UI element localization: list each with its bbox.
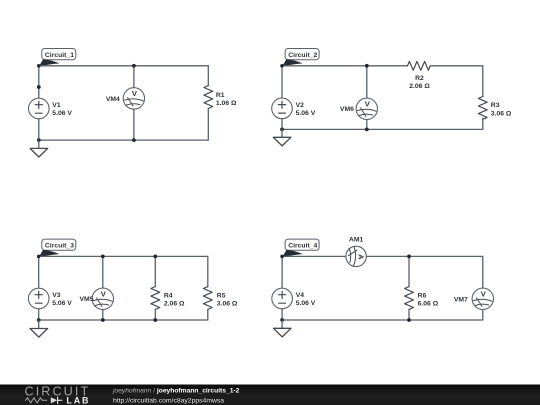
svg-text:R1: R1 [216, 92, 225, 99]
resistor R4 [151, 287, 160, 310]
node flag for Circuit_3 [39, 250, 60, 257]
wire bottom rail C3 [39, 319, 208, 321]
junction dot bottom-left C3 [37, 318, 41, 322]
node label Circuit_1 [42, 49, 76, 60]
svg-text:Circuit_1: Circuit_1 [45, 52, 74, 59]
svg-text:6.06 Ω: 6.06 Ω [418, 301, 439, 308]
svg-text:joeyhofmann / joeyhofmann_circ: joeyhofmann / joeyhofmann_circuits_1-2 [112, 387, 240, 394]
ground C4 [273, 320, 291, 337]
node label Circuit_2 [285, 49, 319, 60]
svg-text:2.06 Ω: 2.06 Ω [164, 301, 185, 308]
svg-text:R2: R2 [415, 75, 424, 82]
ammeter AM1 [346, 246, 366, 266]
junction dot VM5 top [101, 255, 105, 259]
wire bottom rail C4 [282, 319, 483, 321]
svg-text:V4: V4 [296, 292, 305, 299]
junction dot VM5 bottom [101, 318, 105, 322]
svg-text:5.06 V: 5.06 V [52, 110, 72, 117]
wire VM7 branch lower [482, 310, 484, 321]
voltmeter VM6 [356, 98, 377, 119]
svg-text:R4: R4 [164, 292, 173, 299]
voltmeter VM5 [92, 288, 113, 309]
node flag for Circuit_4 [282, 250, 303, 257]
ground C3 [30, 320, 48, 337]
svg-text:3.06 Ω: 3.06 Ω [491, 110, 512, 117]
svg-text:R6: R6 [418, 292, 427, 299]
wire top rail C1 [39, 65, 209, 67]
junction dot VM4 bottom [132, 138, 136, 142]
node flag for Circuit_1 [39, 59, 60, 67]
junction dot R6 bottom [407, 318, 411, 322]
junction dot VM6 bottom [365, 127, 369, 131]
svg-text:A: A [357, 254, 366, 260]
wire left branch upper (node to V1) [38, 66, 40, 98]
wire R3 branch upper [482, 66, 484, 97]
ground C2 [273, 129, 291, 146]
voltmeter VM4 [123, 88, 144, 109]
ground C1 [30, 140, 48, 157]
wire top rail C4 right of AM1 [366, 255, 483, 257]
wire VM6 branch lower [366, 120, 368, 130]
junction dot bottom-left C1 [37, 138, 41, 142]
wire left branch lower (V1 to bottom rail) [38, 119, 40, 140]
wire VM7 branch upper [482, 256, 484, 288]
node label Circuit_3 [42, 239, 76, 250]
svg-text:5.06 V: 5.06 V [296, 110, 316, 117]
svg-text:Circuit_3: Circuit_3 [45, 243, 74, 250]
svg-text:V3: V3 [52, 292, 61, 299]
wire top rail C3 [39, 255, 208, 257]
node dot C1 [37, 64, 41, 68]
svg-text:1.06 Ω: 1.06 Ω [216, 100, 237, 107]
svg-text:5.06 V: 5.06 V [296, 300, 316, 307]
svg-text:Circuit_4: Circuit_4 [288, 243, 317, 250]
junction dot on V1 wire [37, 85, 41, 89]
junction dot R4 top [153, 255, 157, 259]
svg-text:V2: V2 [296, 102, 305, 109]
node dot C3 [37, 255, 41, 259]
wire R6 branch lower [408, 309, 410, 320]
wire R4 branch lower [154, 309, 156, 320]
CircuitLab logo diode symbol [51, 397, 57, 403]
junction dot bottom-left C4 [280, 318, 284, 322]
wire top rail C2 right of R2 [431, 65, 483, 67]
svg-text:VM7: VM7 [454, 296, 468, 303]
svg-text:VM4: VM4 [106, 96, 120, 103]
resistor R5 [203, 287, 212, 310]
node label Circuit_4 [285, 239, 319, 250]
wire R1 branch upper [207, 66, 209, 86]
wire R5 branch upper [207, 256, 209, 286]
voltmeter VM7 [472, 288, 493, 309]
wire R6 branch upper [408, 256, 410, 286]
voltage source V2 [272, 98, 293, 119]
wire R1 branch lower [207, 108, 209, 140]
voltage source V3 [28, 288, 49, 309]
wire left branch upper (node to V2) [281, 66, 283, 98]
junction dot R6 top [407, 255, 411, 259]
node dot C2 [280, 64, 284, 68]
resistor R2 [408, 61, 431, 70]
svg-text:3.06 Ω: 3.06 Ω [217, 301, 238, 308]
wire left branch upper (node to V4) [281, 256, 283, 288]
junction dot VM4 top [132, 64, 136, 68]
wire VM5 branch upper [102, 256, 104, 288]
resistor R3 [478, 97, 487, 120]
wire R3 branch lower [482, 118, 484, 129]
svg-text:R3: R3 [491, 102, 500, 109]
junction dot bottom-left C2 [280, 127, 284, 131]
svg-text:2.06 Ω: 2.06 Ω [409, 83, 430, 90]
svg-text:VM6: VM6 [340, 106, 354, 113]
voltage source V4 [272, 288, 293, 309]
wire left branch lower (V4 to bottom rail) [281, 309, 283, 320]
svg-text:5.06 V: 5.06 V [52, 300, 72, 307]
junction dot R4 bottom [153, 318, 157, 322]
svg-text:Circuit_2: Circuit_2 [288, 52, 317, 59]
wire VM4 branch upper [133, 66, 135, 88]
svg-text:AM1: AM1 [349, 237, 364, 244]
svg-text:V1: V1 [52, 102, 61, 109]
wire VM4 branch lower [133, 109, 135, 140]
wire bottom rail C2 [282, 128, 483, 130]
wire top rail C4 left of AM1 [282, 255, 346, 257]
resistor R1 [204, 86, 213, 109]
wire left branch lower (V3 to bottom rail) [38, 309, 40, 320]
node dot C4 [280, 255, 284, 259]
junction dot VM6 top [365, 64, 369, 68]
CircuitLab logo resistor zigzag [26, 398, 47, 403]
svg-text:http://circuitlab.com/c8ay2pps: http://circuitlab.com/c8ay2pps4mwsa [113, 397, 224, 404]
resistor R6 [405, 287, 414, 310]
wire VM6 branch upper [366, 66, 368, 98]
wire VM5 branch lower [102, 310, 104, 321]
svg-text:VM5: VM5 [80, 296, 94, 303]
wire bottom rail C1 [39, 139, 209, 141]
voltage source V1 [29, 98, 50, 119]
wire left branch lower (V2 to bottom rail) [281, 119, 283, 130]
wire R4 branch upper [154, 256, 156, 286]
node flag for Circuit_2 [282, 59, 303, 67]
wire left branch upper (node to V3) [38, 256, 40, 288]
wire top rail C2 left of R2 [282, 65, 408, 67]
svg-text:R5: R5 [217, 292, 226, 299]
wire R5 branch lower [207, 309, 209, 320]
svg-text:LAB: LAB [66, 395, 90, 405]
